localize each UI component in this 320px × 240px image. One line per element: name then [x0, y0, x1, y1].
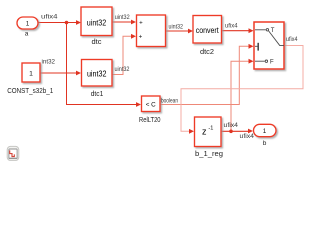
- svg-text:1: 1: [29, 70, 33, 77]
- svg-text:-1: -1: [208, 125, 213, 131]
- data type converter dtc1: [82, 60, 113, 87]
- switch block: [254, 22, 284, 69]
- signal label uint32 (dtc out): [115, 15, 131, 21]
- constant CONST_s32b_1: [22, 63, 40, 82]
- wire dtc to sum: [112, 20, 136, 25]
- svg-text:uint32: uint32: [87, 70, 107, 79]
- switch threshold marker: [255, 45, 258, 47]
- svg-text:uint32: uint32: [169, 24, 184, 30]
- label b_1_reg: [195, 151, 223, 158]
- switch T port line: [255, 29, 266, 31]
- svg-text:1: 1: [263, 128, 267, 135]
- svg-text:z: z: [202, 127, 207, 137]
- signal label ufix4 (inport a): [41, 15, 58, 21]
- signal label int32: [42, 60, 56, 66]
- svg-text:b: b: [263, 140, 267, 147]
- inport a: [17, 17, 38, 29]
- signal label ufix4 (switch out): [286, 37, 298, 43]
- wire sum to convert: [166, 29, 194, 34]
- signal label uint32 (dtc1 out): [115, 67, 131, 73]
- svg-text:RelLT20: RelLT20: [139, 117, 161, 124]
- signal label ufix4 (Z-1 out): [224, 123, 239, 129]
- switch output stub: [279, 45, 284, 47]
- svg-text:+: +: [139, 19, 143, 26]
- node junction on wire a: [65, 21, 69, 25]
- svg-text:dtc2: dtc2: [200, 49, 214, 56]
- svg-text:ufix4: ufix4: [225, 24, 238, 30]
- wire convert to switch T input: [222, 28, 254, 33]
- svg-text:ufix4: ufix4: [224, 123, 239, 129]
- signal label uint32 (sum out): [169, 24, 184, 30]
- signal label ufix4 (feedback branch): [240, 134, 255, 140]
- svg-text:int32: int32: [42, 60, 56, 66]
- svg-text:dtc1: dtc1: [91, 91, 104, 98]
- wire feedback Z-1 output up to switch F input: [231, 59, 254, 132]
- sum block: [137, 15, 166, 47]
- label dtc2: [200, 49, 214, 56]
- switch F port line: [255, 60, 265, 62]
- svg-text:ufix4: ufix4: [286, 37, 298, 43]
- signal label boolean: [161, 98, 178, 104]
- signal label ufix4 (dtc2 out): [225, 24, 238, 30]
- svg-text:b_1_reg: b_1_reg: [195, 151, 223, 158]
- unit delay Z-1 (b_1_reg): [195, 117, 222, 147]
- svg-text:uint32: uint32: [87, 19, 107, 28]
- wire dtc1 to sum: [113, 34, 137, 75]
- svg-text:a: a: [25, 31, 29, 38]
- svg-text:1: 1: [26, 20, 30, 27]
- outport b: [254, 124, 277, 136]
- label dtc: [92, 39, 103, 46]
- svg-text:F: F: [270, 60, 274, 66]
- data type converter dtc: [81, 7, 112, 36]
- label b: [263, 140, 267, 147]
- data type converter dtc2 (convert): [193, 16, 222, 44]
- label dtc1: [91, 91, 104, 98]
- svg-text:boolean: boolean: [161, 98, 178, 104]
- compare block RelLT20: [142, 96, 161, 112]
- wire switch output feedback to Z-1 input: [181, 46, 303, 134]
- label a: [25, 31, 29, 38]
- svg-text:uint32: uint32: [115, 15, 131, 21]
- wire RelLT20 boolean to switch threshold input: [160, 44, 254, 105]
- wire CONST to dtc1: [40, 71, 81, 76]
- label CONST_s32b_1: [7, 88, 53, 95]
- svg-text:uint32: uint32: [115, 67, 131, 73]
- svg-text:ufix4: ufix4: [240, 134, 255, 140]
- wire a to dtc: [39, 20, 82, 25]
- svg-text:CONST_s32b_1: CONST_s32b_1: [7, 88, 53, 95]
- node junction on Z-1 output: [229, 130, 233, 134]
- svg-text:convert: convert: [196, 26, 220, 35]
- badge sample-time legend button: [7, 146, 19, 160]
- svg-text:T: T: [271, 28, 275, 34]
- svg-text:+: +: [139, 34, 143, 41]
- wire Z-1 output to outport b: [221, 129, 253, 134]
- svg-text:ufix4: ufix4: [41, 15, 58, 21]
- label RelLT20: [139, 117, 161, 124]
- wire a branch down to RelLT20: [67, 23, 142, 107]
- switch lever: [269, 31, 280, 45]
- svg-text:< C: < C: [146, 102, 156, 109]
- svg-text:dtc: dtc: [92, 39, 103, 46]
